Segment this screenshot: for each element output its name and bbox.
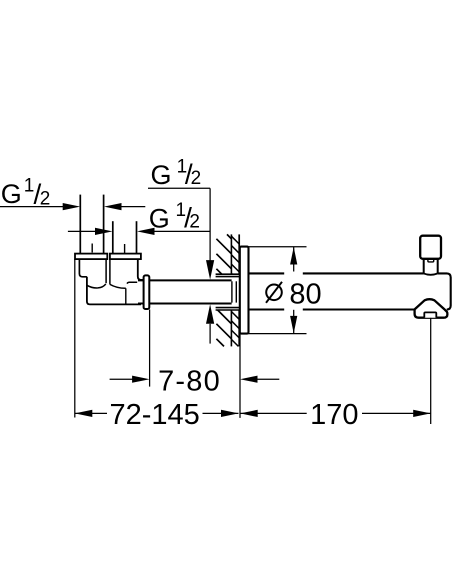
- wall hatching (finish layer, short diagonals): [231, 236, 239, 346]
- svg-text:170: 170: [310, 399, 358, 431]
- pipe thread marks at wall: [232, 281, 236, 302]
- dimension line diameter 80: [290, 247, 297, 333]
- union flange plate left: [75, 254, 107, 260]
- right cup bottom edge: [127, 282, 137, 283]
- wall escutcheon Ø80: [240, 247, 249, 334]
- label G1/2 for right inlet: [149, 200, 200, 234]
- extension line wall surface / escutcheon: [239, 334, 241, 418]
- label diameter symbol: [266, 282, 282, 303]
- dimension line 7-80: [110, 376, 280, 383]
- extension line flange left: [74, 259, 76, 417]
- extension line spout outlet: [430, 318, 432, 424]
- connection pipe union to wall: [138, 280, 232, 303]
- diverter stem: [424, 259, 438, 275]
- inlet pipe left: [80, 195, 103, 254]
- cover cup right rim: [110, 284, 126, 288]
- aerator: [424, 312, 436, 317]
- dimension line G1/2 right inlet: [68, 228, 210, 235]
- diverter knob: [420, 236, 441, 259]
- elbow body outline: [87, 277, 141, 305]
- svg-text:7-80: 7-80: [158, 365, 221, 397]
- extension line escutcheon top: [240, 246, 307, 248]
- svg-text:G: G: [151, 160, 172, 190]
- elbow outlet boss: [138, 259, 144, 280]
- svg-text:2: 2: [189, 212, 200, 233]
- thread tick left inlet: [91, 244, 93, 253]
- svg-text:G: G: [1, 179, 22, 209]
- in-wall socket sleeve: [216, 274, 240, 310]
- union nut: [144, 275, 150, 309]
- label G1/2 for left inlet: [1, 175, 50, 209]
- dimension line 72-145: [75, 410, 239, 417]
- arrow to pipe bottom at wall: [206, 304, 214, 343]
- wall hatching (structure, long diagonals): [216, 234, 231, 346]
- cover cup left rim curve: [87, 284, 106, 288]
- union flange plate right: [110, 254, 141, 260]
- elbow body inner edge: [125, 288, 127, 304]
- extension line union nut: [149, 310, 151, 387]
- svg-text:72-145: 72-145: [109, 399, 199, 431]
- inlet pipe right: [113, 221, 137, 253]
- label G1/2 for wall connection: [151, 157, 202, 190]
- leader line G1/2 wall connection: [148, 188, 214, 279]
- svg-text:2: 2: [191, 168, 202, 189]
- svg-text:80: 80: [289, 278, 321, 310]
- extension line escutcheon bottom: [240, 333, 307, 335]
- wall layer boundary line: [230, 234, 232, 346]
- cover cup divider: [106, 259, 110, 284]
- wall surface line: [238, 234, 240, 346]
- spout outlet dome: [415, 299, 448, 318]
- dimension line 170: [240, 410, 431, 417]
- cover cup left: [79, 259, 87, 277]
- spout tube body: [249, 273, 451, 309]
- dimension line G1/2 left inlet: [0, 203, 145, 210]
- thread tick right inlet: [124, 244, 126, 253]
